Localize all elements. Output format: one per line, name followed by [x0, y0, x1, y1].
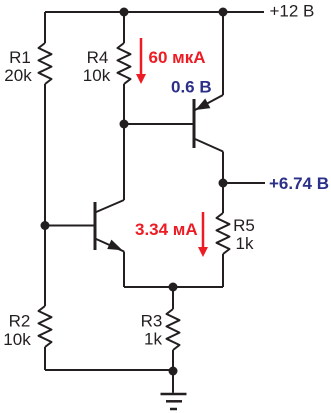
svg-text:60 мкА: 60 мкА: [149, 48, 206, 67]
ground: [161, 371, 187, 409]
svg-text:+12 В: +12 В: [270, 2, 315, 21]
wire left branch upper (rail corner to R1 top): [44, 12, 46, 43]
wire Q2 emitter lead from rail: [222, 12, 224, 95]
wire R3 bottom lead: [172, 350, 174, 371]
node output +6.74V: [219, 179, 228, 188]
current arrow 60 uA through R4: [136, 38, 146, 84]
wire Q1 collector lead: [123, 124, 125, 200]
svg-text:0.6 В: 0.6 В: [171, 78, 212, 97]
resistor R4: [118, 43, 131, 84]
wire R3 top lead: [172, 287, 174, 309]
transistor Q2: [194, 95, 223, 152]
wire R4 bottom lead to node: [123, 84, 125, 124]
svg-text:R1: R1: [9, 48, 31, 67]
svg-text:3.34 мА: 3.34 мА: [135, 220, 198, 239]
wire R4 top lead: [123, 12, 125, 43]
wire bottom-left horizontal to ground node: [45, 369, 173, 371]
wire R5 top lead: [222, 183, 224, 213]
wire left branch lower (R2 bottom to bottom-left corner): [44, 347, 46, 370]
wire Q1 emitter lead down: [123, 252, 125, 288]
svg-text:R2: R2: [9, 312, 31, 331]
svg-text:R5: R5: [233, 216, 255, 235]
svg-text:R4: R4: [87, 48, 109, 67]
resistor R1: [39, 43, 52, 84]
wire Q2 collector lead to output node: [222, 152, 224, 184]
svg-text:+6.74 В: +6.74 В: [269, 174, 329, 193]
wire output node stub: [223, 182, 265, 184]
node junction top rail / Q2 emitter: [219, 8, 228, 17]
transistor Q1: [95, 200, 124, 252]
wire left branch middle (R1 bottom to R2 top): [44, 84, 46, 306]
wire R5 bottom lead: [222, 254, 224, 287]
node junction top rail / R4: [120, 8, 129, 17]
node junction R3 bottom / ground: [169, 367, 178, 376]
node junction R4 bottom / Q2 base / Q1 collector: [120, 120, 129, 129]
svg-text:10k: 10k: [3, 330, 31, 349]
resistor R5: [217, 213, 230, 254]
svg-text:R3: R3: [141, 312, 163, 331]
resistor R2: [39, 306, 52, 347]
node junction bottom rail / R3 top: [169, 283, 178, 292]
wire Q2 base (node to base bar): [124, 123, 193, 125]
resistor R3: [167, 309, 180, 350]
svg-text:20k: 20k: [4, 66, 32, 85]
svg-text:10k: 10k: [83, 66, 111, 85]
wire Q1 base (divider node to base bar): [45, 225, 94, 227]
node junction divider R1/R2 / Q1 base: [41, 221, 50, 230]
current arrow 3.34 mA through R5: [198, 212, 208, 257]
svg-text:1k: 1k: [144, 330, 162, 349]
wire top rail +12V: [45, 11, 264, 13]
svg-text:1k: 1k: [236, 234, 254, 253]
wire bottom horizontal (Q1 emitter to R5 bottom): [124, 286, 223, 288]
